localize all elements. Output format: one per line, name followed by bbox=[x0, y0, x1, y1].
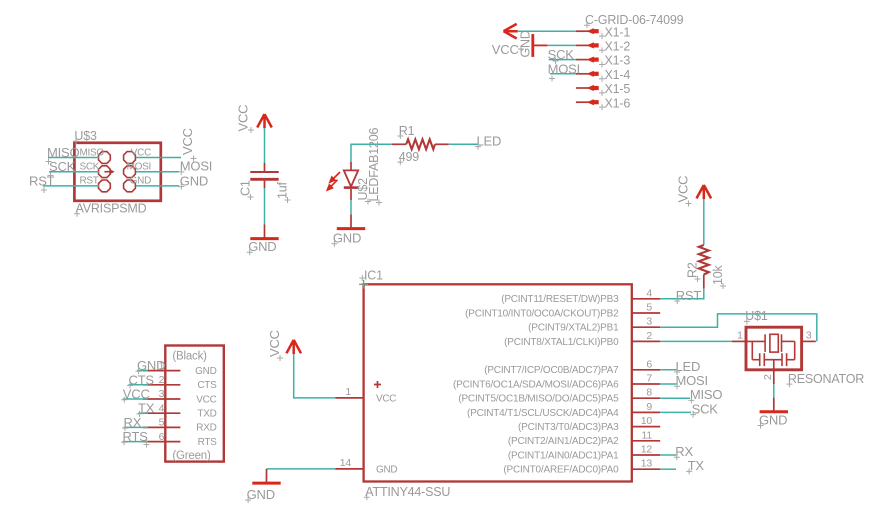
wire VCC to IC pin 1 bbox=[294, 354, 336, 398]
svg-text:LEDFAB1206: LEDFAB1206 bbox=[367, 128, 381, 202]
svg-text:6: 6 bbox=[159, 431, 165, 443]
pin 1 GND bbox=[143, 360, 217, 377]
svg-text:3: 3 bbox=[806, 330, 812, 342]
svg-text:12: 12 bbox=[641, 444, 653, 456]
svg-text:RST: RST bbox=[29, 173, 55, 188]
supply VCC arrow (rotated, pointing left) at X1-1 bbox=[492, 24, 524, 57]
pin 3 bbox=[802, 330, 816, 342]
wire net RX at pin 12 bbox=[660, 454, 676, 456]
svg-text:3: 3 bbox=[159, 388, 165, 400]
svg-text:(Green): (Green) bbox=[172, 450, 211, 462]
svg-text:IC1: IC1 bbox=[364, 268, 383, 282]
svg-text:X1-3: X1-3 bbox=[605, 54, 631, 68]
resistor R2 bbox=[699, 245, 709, 289]
label (Black) bbox=[172, 351, 207, 363]
svg-text:13: 13 bbox=[641, 458, 653, 470]
svg-text:VCC: VCC bbox=[236, 105, 251, 132]
op IC1 ATTINY44-SSU body bbox=[364, 284, 632, 481]
net label RST bbox=[29, 173, 55, 193]
load capacitors inside resonator bbox=[752, 341, 794, 369]
label (Green) bbox=[172, 450, 211, 462]
svg-text:MOSI: MOSI bbox=[180, 159, 212, 174]
svg-text:VCC: VCC bbox=[676, 176, 691, 203]
svg-text:(PCINT8/XTAL1/CLKI)PB0: (PCINT8/XTAL1/CLKI)PB0 bbox=[504, 337, 619, 348]
svg-text:8: 8 bbox=[646, 387, 652, 399]
wire net RX to FTDI bbox=[124, 426, 149, 428]
pad pin 5 (right column) bbox=[124, 166, 136, 178]
value ATTINY44-SSU bbox=[364, 485, 451, 500]
label IC1 bbox=[359, 268, 383, 282]
svg-text:X1-5: X1-5 bbox=[605, 82, 631, 96]
pin label X1-3 bbox=[599, 54, 630, 68]
pin 8 PA5 bbox=[458, 387, 660, 405]
svg-text:5: 5 bbox=[646, 302, 652, 314]
net label SCK bbox=[690, 401, 718, 417]
pin 5 RXD bbox=[143, 417, 217, 434]
svg-text:(PCINT4/T1/SCL/USCK/ADC4)PA4: (PCINT4/T1/SCL/USCK/ADC4)PA4 bbox=[467, 408, 619, 419]
svg-text:GND: GND bbox=[519, 30, 533, 57]
svg-text:VCC: VCC bbox=[267, 330, 282, 357]
svg-text:6: 6 bbox=[646, 358, 652, 370]
wire net TX at pin 13 bbox=[660, 468, 676, 470]
ground symbol at IC pin 14 bbox=[245, 469, 281, 503]
svg-text:(PCINT7/ICP/OC0B/ADC7)PA7: (PCINT7/ICP/OC0B/ADC7)PA7 bbox=[484, 365, 619, 376]
pad pin 1 (left column) bbox=[99, 152, 111, 164]
svg-text:5: 5 bbox=[159, 417, 165, 429]
svg-text:SCK: SCK bbox=[80, 162, 100, 173]
svg-text:VCC: VCC bbox=[376, 393, 396, 404]
net label RTS bbox=[121, 429, 148, 445]
pin 13 PA0 bbox=[503, 458, 660, 476]
svg-text:2: 2 bbox=[159, 374, 165, 386]
svg-text:(PCINT2/AIN1/ADC2)PA2: (PCINT2/AIN1/ADC2)PA2 bbox=[508, 436, 619, 447]
ISP header U$3 AVRISPSMD bbox=[74, 143, 160, 201]
svg-text:(PCINT1/AIN0/ADC1)PA1: (PCINT1/AIN0/ADC1)PA1 bbox=[508, 450, 619, 461]
svg-text:7: 7 bbox=[646, 373, 652, 385]
net label SCK bbox=[48, 159, 76, 178]
svg-text:SCK: SCK bbox=[49, 159, 76, 174]
net label RX bbox=[674, 444, 694, 460]
pad pin 3 (left column) bbox=[99, 180, 111, 192]
pin 4 PB3 bbox=[501, 287, 660, 305]
wire net SCK at pin 9 bbox=[660, 411, 691, 413]
wire net SCK to header bbox=[49, 171, 99, 173]
svg-text:(PCINT10/INT0/OC0A/CKOUT)PB2: (PCINT10/INT0/OC0A/CKOUT)PB2 bbox=[465, 308, 619, 319]
FTDI header body bbox=[165, 346, 224, 462]
svg-text:(PCINT0/AREF/ADC0)PA0: (PCINT0/AREF/ADC0)PA0 bbox=[503, 465, 619, 476]
net label TX bbox=[137, 401, 155, 417]
wire R1 to LED (corner) bbox=[351, 144, 392, 162]
svg-text:1: 1 bbox=[737, 330, 743, 342]
svg-text:RST: RST bbox=[80, 176, 99, 187]
label U$2 (rotated) bbox=[356, 178, 371, 205]
svg-text:GND: GND bbox=[195, 366, 216, 377]
svg-text:X1-4: X1-4 bbox=[605, 68, 631, 82]
wire net MOSI at pin 7 bbox=[660, 383, 676, 385]
IC origin cross bbox=[359, 280, 368, 289]
label C1 (rotated) bbox=[239, 180, 254, 200]
wire net MOSI from header bbox=[136, 171, 179, 173]
pin 1 VCC bbox=[335, 381, 396, 404]
pin 3 VCC bbox=[143, 388, 217, 405]
resistor R1 bbox=[392, 139, 449, 149]
pin name RST bbox=[80, 176, 99, 187]
wire C1 to GND bbox=[264, 188, 266, 224]
net label CTS bbox=[127, 372, 154, 388]
capacitor C1 bbox=[250, 163, 278, 188]
svg-text:VCC: VCC bbox=[131, 147, 151, 158]
svg-text:1: 1 bbox=[345, 386, 351, 398]
pin 12 PA1 bbox=[508, 444, 660, 462]
wire IC pin 3 to resonator pin 3 bbox=[660, 314, 817, 342]
net label MOSI bbox=[548, 61, 580, 81]
net label VCC (rotated) bbox=[180, 128, 197, 161]
svg-text:CTS: CTS bbox=[197, 380, 217, 391]
net label RST bbox=[674, 288, 701, 304]
svg-text:TXD: TXD bbox=[197, 409, 216, 420]
net label VCC bbox=[121, 387, 149, 403]
svg-text:(Black): (Black) bbox=[172, 351, 207, 363]
wire VCC to X1-1 bbox=[518, 30, 576, 32]
svg-text:X1-1: X1-1 bbox=[605, 25, 631, 39]
svg-text:2: 2 bbox=[646, 330, 652, 342]
pin label X1-2 bbox=[599, 40, 630, 54]
wire VCC to R2 bbox=[703, 199, 705, 245]
pin 3 PB1 bbox=[528, 316, 660, 334]
pin name MOSI bbox=[127, 162, 151, 173]
pin 10 PA3 bbox=[518, 415, 660, 433]
pin label X1-5 bbox=[599, 82, 630, 96]
wire net RST to header bbox=[43, 185, 99, 187]
svg-text:AVRISPSMD: AVRISPSMD bbox=[76, 202, 147, 216]
svg-text:11: 11 bbox=[642, 429, 653, 441]
svg-text:VCC: VCC bbox=[492, 42, 519, 57]
value RESONATOR bbox=[786, 372, 864, 387]
value 10k (rotated) bbox=[711, 264, 726, 289]
wire VCC to C1 bbox=[264, 128, 266, 163]
net label GND bbox=[178, 173, 208, 189]
resonator U$1 body bbox=[746, 327, 802, 370]
value LEDFAB1206 (rotated) bbox=[367, 128, 382, 206]
label AVRISPSMD bbox=[74, 202, 147, 217]
wire net TX to FTDI bbox=[138, 412, 148, 414]
svg-text:4: 4 bbox=[159, 402, 165, 414]
supply VCC arrow at IC pin 1 bbox=[267, 330, 301, 361]
net label LED bbox=[475, 133, 501, 149]
label R1 bbox=[397, 124, 414, 139]
svg-text:4: 4 bbox=[646, 287, 652, 299]
net label TX bbox=[686, 458, 704, 474]
label U$3 bbox=[73, 129, 97, 144]
ground symbol below resonator bbox=[758, 398, 789, 429]
svg-text:10k: 10k bbox=[711, 264, 725, 285]
svg-text:VCC: VCC bbox=[180, 128, 195, 155]
net label MISO bbox=[688, 387, 722, 403]
net label MOSI bbox=[674, 373, 708, 389]
crystal element inside resonator bbox=[746, 334, 795, 352]
pin 2 CTS bbox=[143, 374, 217, 391]
pin name SCK bbox=[80, 162, 100, 173]
svg-text:X1-6: X1-6 bbox=[605, 96, 631, 110]
pin name MISO bbox=[80, 147, 105, 158]
svg-text:MOSI: MOSI bbox=[548, 61, 580, 76]
svg-text:MISO: MISO bbox=[690, 387, 723, 402]
pin 2 PB0 bbox=[504, 330, 660, 348]
wire net CTS to FTDI bbox=[129, 384, 149, 386]
svg-text:(PCINT5/OC1B/MISO/DO/ADC5)PA5: (PCINT5/OC1B/MISO/DO/ADC5)PA5 bbox=[458, 394, 619, 405]
pad pin 2 (left column) bbox=[99, 166, 111, 178]
supply GND symbol (rotated) at X1-2 bbox=[519, 30, 548, 57]
svg-text:RTS: RTS bbox=[198, 437, 218, 448]
svg-text:ATTINY44-SSU: ATTINY44-SSU bbox=[365, 485, 450, 499]
svg-text:SCK: SCK bbox=[548, 47, 575, 62]
pin 4 TXD bbox=[143, 402, 217, 419]
svg-text:(PCINT3/T0/ADC3)PA3: (PCINT3/T0/ADC3)PA3 bbox=[518, 422, 619, 433]
pin 1 bbox=[732, 330, 746, 342]
label C-GRID-06-74099 bbox=[584, 13, 684, 28]
pin 6 PA7 bbox=[484, 358, 660, 376]
svg-text:VCC: VCC bbox=[196, 394, 216, 405]
pin 6 RTS bbox=[143, 431, 217, 448]
pin name GND bbox=[130, 176, 151, 187]
svg-text:(PCINT11/RESET/DW)PB3: (PCINT11/RESET/DW)PB3 bbox=[501, 294, 619, 305]
supply VCC arrow above C1 bbox=[236, 105, 272, 133]
wire net VCC from header bbox=[136, 157, 181, 159]
wire IC pin 2 to resonator pin 1 bbox=[660, 340, 732, 342]
LED emission arrows bbox=[327, 172, 340, 190]
svg-text:C-GRID-06-74099: C-GRID-06-74099 bbox=[585, 13, 684, 27]
wire net GND to FTDI bbox=[137, 370, 148, 372]
svg-text:RXD: RXD bbox=[196, 423, 216, 434]
wire net MISO at pin 8 bbox=[660, 397, 690, 399]
net label GND bbox=[136, 358, 166, 374]
svg-text:MOSI: MOSI bbox=[676, 373, 708, 388]
svg-text:3: 3 bbox=[646, 316, 652, 328]
svg-text:14: 14 bbox=[340, 457, 352, 469]
pad pin 6 (right column) bbox=[124, 180, 136, 192]
net label MOSI bbox=[178, 159, 212, 175]
wire net SCK to X1-3 bbox=[549, 59, 576, 61]
wire LED to GND bbox=[350, 200, 352, 214]
svg-text:2: 2 bbox=[762, 374, 774, 380]
svg-text:10: 10 bbox=[641, 415, 653, 427]
svg-text:GND: GND bbox=[130, 176, 151, 187]
svg-text:1uf: 1uf bbox=[276, 181, 290, 199]
wire net VCC to FTDI bbox=[123, 398, 148, 400]
pin label X1-6 bbox=[599, 96, 630, 110]
label R2 (rotated) bbox=[686, 262, 701, 282]
svg-text:MOSI: MOSI bbox=[127, 162, 151, 173]
wire net GND from header bbox=[136, 185, 179, 187]
pad pin 4 (right column) bbox=[124, 152, 136, 164]
pin 7 PA6 bbox=[453, 373, 660, 391]
svg-text:R2: R2 bbox=[686, 262, 700, 278]
pin 11 PA2 bbox=[508, 429, 660, 447]
svg-text:MISO: MISO bbox=[47, 145, 80, 160]
net label SCK bbox=[548, 47, 575, 64]
net label LED bbox=[674, 359, 700, 375]
svg-text:MISO: MISO bbox=[80, 147, 105, 158]
svg-text:RESONATOR: RESONATOR bbox=[788, 372, 864, 386]
wire net MISO to header bbox=[48, 157, 99, 159]
pin label X1-1 bbox=[599, 25, 630, 39]
net label RX bbox=[122, 415, 142, 431]
svg-text:9: 9 bbox=[646, 401, 652, 413]
svg-text:C1: C1 bbox=[239, 180, 253, 196]
wire resonator pin 2 to GND bbox=[773, 384, 775, 398]
ground symbol below LED bbox=[331, 214, 365, 246]
svg-text:(PCINT9/XTAL2)PB1: (PCINT9/XTAL2)PB1 bbox=[528, 323, 619, 334]
wire net RTS to FTDI bbox=[123, 441, 149, 443]
wire R1 to LED net label bbox=[449, 143, 478, 145]
pin name VCC bbox=[131, 147, 151, 158]
pin 14 GND bbox=[335, 457, 397, 475]
pin 5 PB2 bbox=[465, 302, 660, 320]
wire net LED at pin 6 bbox=[660, 369, 676, 371]
connector X1 C-GRID-06-74099 bbox=[576, 28, 599, 105]
junction origin cross near RTS pin bbox=[144, 442, 150, 448]
supply VCC arrow above R2 bbox=[676, 176, 712, 207]
pin-1 indicator arrow bbox=[104, 169, 114, 174]
ground symbol below C1 bbox=[247, 224, 279, 255]
pin label X1-4 bbox=[599, 68, 630, 82]
pin 2 bbox=[762, 370, 774, 384]
net label MISO bbox=[46, 145, 80, 165]
value 499 bbox=[397, 150, 419, 165]
pin 9 PA4 bbox=[467, 401, 660, 419]
wire GND to X1-2 bbox=[547, 44, 576, 46]
wire R2 to IC pin 4 (RST net) bbox=[660, 289, 704, 299]
LED U$2 bbox=[344, 162, 358, 200]
svg-text:(PCINT6/OC1A/SDA/MOSI/ADC6)PA6: (PCINT6/OC1A/SDA/MOSI/ADC6)PA6 bbox=[453, 379, 619, 390]
value 1uf (rotated) bbox=[276, 181, 291, 203]
svg-text:X1-2: X1-2 bbox=[605, 40, 631, 54]
wire net MOSI to X1-4 bbox=[550, 73, 576, 75]
label U$1 bbox=[744, 309, 768, 324]
svg-text:GND: GND bbox=[376, 464, 397, 475]
wire IC pin 14 to GND bbox=[267, 468, 336, 470]
